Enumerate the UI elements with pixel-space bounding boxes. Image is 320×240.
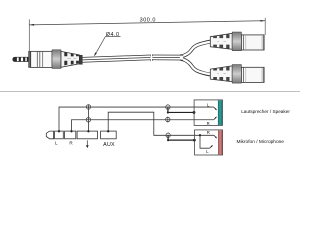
mic box [195, 130, 223, 155]
boot notch bottom 2 [71, 61, 74, 65]
boot end cap [79, 55, 82, 64]
boot mid lines [67, 58, 71, 60]
svg-text:R: R [207, 130, 210, 135]
crossing circle left 1 [86, 105, 90, 109]
dimension line 300.0 [29, 21, 265, 25]
wire R [72, 120, 214, 131]
schematic contact box ground [77, 131, 97, 139]
diameter leader arrowhead [94, 52, 97, 56]
stub to mic [168, 135, 194, 140]
3.5mm plug pin [13, 57, 31, 61]
svg-text:AUX: AUX [103, 142, 115, 148]
branch root fill [180, 56, 183, 60]
connector top grip notches [213, 36, 217, 38]
cable joint ticks [150, 55, 152, 57]
pin junction dots [58, 130, 60, 132]
branch cable upper [180, 42, 210, 57]
barrel ring line 3 [42, 52, 44, 68]
schematic contact box AUX [101, 131, 117, 139]
svg-text:Mikrofon / Microphone: Mikrofon / Microphone [237, 139, 285, 145]
boot notch top 3 [76, 54, 79, 56]
boot notch bottom 3 [76, 61, 79, 64]
svg-text:L: L [206, 149, 209, 154]
plug gradient band [52, 50, 61, 69]
diameter leader underline [105, 36, 120, 38]
diameter leader line [95, 37, 106, 56]
connector top body [241, 35, 264, 50]
svg-text:R: R [207, 121, 210, 126]
dimension arrow left [30, 24, 35, 26]
connector top grip [210, 33, 232, 49]
connector top band [232, 32, 241, 51]
mic interior junction dot [199, 134, 201, 136]
boot notch bottom 1 [64, 61, 67, 66]
stub to speaker [168, 107, 194, 112]
ground symbol [86, 140, 88, 145]
cable segment A top line [82, 55, 150, 57]
schematic contact box R [65, 131, 76, 139]
plug boot [61, 51, 79, 67]
terminal circle right 1 [166, 105, 170, 109]
wire L [59, 107, 214, 131]
mic interior wire [200, 135, 210, 148]
schematic contact box L [55, 131, 64, 139]
terminal circle right 2 [166, 117, 170, 121]
svg-text:R: R [69, 141, 73, 146]
svg-text:L: L [207, 102, 210, 107]
dimension extension line right [264, 18, 266, 35]
svg-text:Lautsprecher / Speaker: Lautsprecher / Speaker [241, 109, 290, 114]
cable segment A bottom line [82, 60, 150, 63]
connector bottom grip [210, 66, 232, 82]
svg-text:L: L [55, 141, 58, 146]
speaker box [194, 100, 222, 126]
pin ring band 2 [19, 57, 21, 61]
cable segment A mid line [82, 57, 150, 59]
separator line [0, 91, 300, 93]
schematic plug tip pentagon [46, 131, 53, 139]
cable segment B mid line [152, 57, 180, 59]
svg-text:Ø4.0: Ø4.0 [106, 32, 120, 38]
crossing circle left 2 [86, 118, 90, 122]
dimension extension line left [28, 19, 30, 55]
terminal circle right 3 [166, 133, 170, 137]
barrel ring line 2 [39, 52, 41, 68]
wire AUX [108, 112, 214, 135]
dimension arrow right [260, 20, 265, 22]
pin ring band 4 [27, 57, 29, 61]
connector bottom body [241, 67, 264, 82]
pin dark tip [13, 57, 17, 61]
pin ring band 3 [23, 57, 25, 61]
connector bottom band [232, 65, 241, 84]
mic red bar [218, 130, 223, 154]
svg-text:300.0: 300.0 [140, 18, 156, 24]
barrel ring line 1 [36, 52, 38, 68]
plug collar [29, 51, 31, 67]
plug barrel [31, 51, 52, 67]
wire ground [87, 105, 89, 132]
connector bottom grip notches [213, 68, 217, 70]
cable segment B bottom line [152, 59, 180, 61]
cable segment B top line [152, 54, 180, 56]
speaker teal bar [218, 100, 223, 125]
branch cable lower [180, 59, 210, 75]
boot notch top 2 [71, 53, 74, 56]
boot notch top 1 [64, 52, 67, 56]
